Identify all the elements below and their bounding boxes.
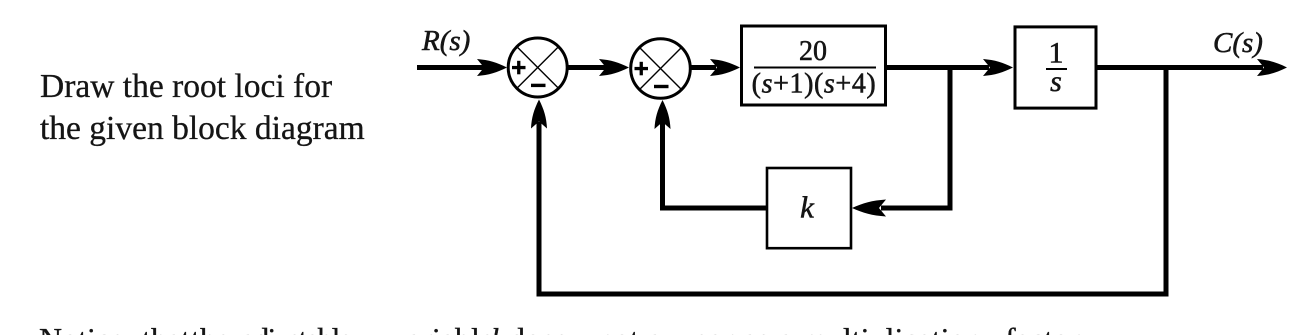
svg-text:20: 20 — [799, 36, 827, 67]
svg-text:k: k — [800, 190, 815, 225]
svg-text:R(s): R(s) — [421, 25, 470, 57]
svg-text:s: s — [1050, 65, 1062, 98]
svg-text:C(s): C(s) — [1213, 27, 1263, 59]
svg-text:(s+1)(s+4): (s+1)(s+4) — [752, 69, 877, 100]
